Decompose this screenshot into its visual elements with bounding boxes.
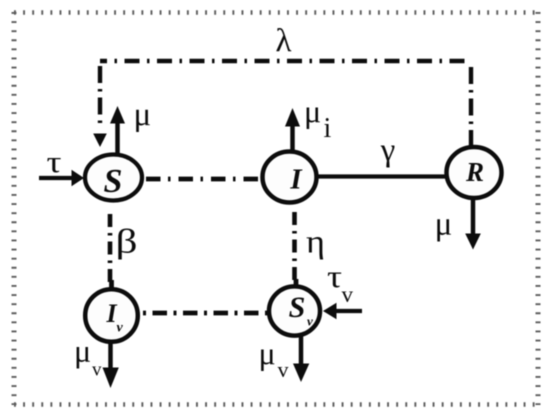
wire S to I dash-dot — [146, 177, 262, 182]
svg-text:v: v — [92, 360, 102, 381]
svg-text:v: v — [307, 314, 313, 329]
svg-text:v: v — [117, 321, 124, 336]
svg-text:μ: μ — [134, 97, 152, 133]
arrow tau into S — [39, 170, 84, 186]
svg-text:μ: μ — [304, 93, 321, 129]
arrow mu_v down out of S_v — [293, 336, 309, 382]
svg-text:η: η — [306, 225, 325, 261]
wire beta final dash touching I_v — [109, 280, 114, 290]
node S_v (susceptible vector) — [269, 286, 320, 335]
svg-text:R: R — [465, 157, 484, 187]
wire gamma solid I to R — [315, 174, 448, 178]
node I (infected host) — [263, 152, 317, 203]
wire lambda right vertical dash-dot into R — [469, 67, 473, 148]
node R (recovered) — [447, 147, 502, 198]
wire beta vertical dash-dot S to I_v — [108, 214, 113, 288]
svg-text:S: S — [104, 163, 123, 200]
arrow tau_v into S_v — [323, 303, 362, 319]
svg-text:μ: μ — [74, 333, 91, 369]
svg-text:λ: λ — [275, 23, 291, 59]
wire eta final dash touching S_v — [294, 279, 299, 288]
arrow mu up out of S — [110, 106, 125, 153]
wire eta vertical dash-dot I to S_v — [292, 212, 297, 288]
svg-text:μ: μ — [435, 207, 453, 243]
arrow mu_v down out of I_v — [103, 341, 119, 388]
wire lambda horizontal dash-dot (top feedback link) — [100, 59, 471, 64]
wire I_v to S_v dash-dot — [143, 311, 268, 316]
arrowhead into S from lambda line — [93, 134, 107, 148]
wire lambda left vertical dash-dot into S — [98, 66, 102, 124]
node I_v (infected vector) — [85, 289, 138, 342]
svg-text:v: v — [278, 357, 289, 382]
svg-text:β: β — [116, 224, 138, 261]
svg-text:γ: γ — [380, 133, 395, 169]
svg-text:τ: τ — [47, 144, 62, 179]
svg-text:I: I — [289, 164, 303, 196]
svg-text:i: i — [324, 113, 332, 144]
node S (susceptible host) — [85, 155, 142, 201]
arrow mu down out of R — [465, 199, 481, 250]
arrow mu_i up out of I — [285, 108, 300, 153]
svg-text:τ: τ — [327, 258, 342, 294]
svg-text:S: S — [289, 291, 306, 324]
svg-text:μ: μ — [259, 335, 276, 371]
svg-text:v: v — [342, 282, 354, 307]
